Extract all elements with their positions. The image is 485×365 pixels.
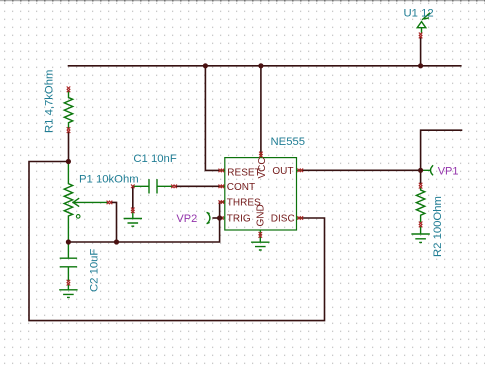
ground below R2: [412, 226, 429, 242]
wire reset feeder: [205, 66, 219, 171]
svg-text:NE555: NE555: [271, 136, 306, 148]
junction top rail / power: [418, 63, 423, 68]
junction OUT / VP1 / R2: [418, 168, 423, 173]
svg-text:C1 10nF: C1 10nF: [133, 153, 176, 165]
pin cross R2 top: [419, 183, 423, 189]
wire C1 to CONT: [176, 185, 220, 187]
svg-text:TRIG: TRIG: [227, 214, 251, 225]
resistor R2: [416, 187, 424, 222]
pin cross THRES: [219, 200, 225, 204]
resistor R1: [64, 91, 72, 128]
svg-text:P1 10kOhm: P1 10kOhm: [79, 173, 139, 185]
connector VP1 arc: [421, 166, 432, 175]
junction top rail / reset feeder: [203, 63, 208, 68]
wire vcc feeder: [260, 66, 262, 153]
pin stub RESET: [219, 169, 225, 171]
junction wiper / rail: [114, 239, 119, 244]
capacitor C2: [60, 242, 76, 280]
wire R1 bottom to junction: [68, 132, 70, 162]
pin cross TRIG: [220, 216, 223, 220]
capacitor C1: [134, 180, 173, 193]
power symbol U1 arrow: [417, 22, 426, 33]
potentiometer P1 wiper arrow: [73, 199, 108, 207]
pin cross C1 ground: [131, 208, 135, 214]
power pin slash over 12: [423, 13, 430, 19]
pin cross R2 bottom: [419, 222, 423, 228]
wire OUT to VP1 junction: [302, 169, 421, 171]
junction TRIG node: [217, 215, 222, 220]
junction top rail / vcc feeder: [258, 63, 263, 68]
connector VP2 arc: [207, 213, 210, 224]
pin stub TRIG: [220, 217, 225, 219]
pin stub OUT: [297, 169, 302, 171]
svg-text:U1 12: U1 12: [404, 8, 434, 20]
wire OUT branch up right: [421, 130, 462, 170]
pin cross DISC: [297, 216, 303, 220]
wire P1 wiper corner: [111, 202, 117, 242]
wire power stub U1: [420, 37, 422, 66]
pin cross R1 bottom: [67, 127, 71, 133]
wire feedback loop DISC: [29, 162, 325, 321]
pin cross GND: [259, 232, 263, 238]
pin cross U1 power: [419, 33, 423, 39]
pin cross P1 wiper: [107, 201, 113, 205]
svg-text:R1 4,7kOhm: R1 4,7kOhm: [43, 70, 55, 133]
wire VP2 stub: [213, 217, 219, 219]
ground below C1: [124, 211, 141, 226]
window top border: [0, 0, 485, 1]
svg-text:RESET: RESET: [227, 168, 260, 179]
pin stub GND: [259, 230, 261, 237]
pin cross CONT: [219, 185, 225, 189]
svg-text:GND: GND: [256, 204, 267, 226]
pin cross C2 bottom: [67, 280, 71, 286]
ground below C2: [60, 284, 77, 297]
wire top power rail: [69, 65, 461, 67]
pin stub VCC: [260, 153, 262, 158]
pin cross OUT: [297, 169, 303, 173]
wire C1 left down to ground: [132, 187, 134, 208]
wire bottom rail to TRIG: [68, 219, 219, 242]
pin cross VCC: [259, 152, 263, 158]
svg-text:VP1: VP1: [438, 165, 459, 177]
svg-text:R2 100Ohm: R2 100Ohm: [432, 196, 444, 257]
svg-text:VCC: VCC: [257, 157, 268, 178]
pin cross C1 right: [171, 185, 177, 189]
pin cross RESET: [219, 169, 225, 173]
junction R1 / P1 / loop: [66, 159, 71, 164]
pin cross C1 left: [131, 185, 135, 189]
wire THRES-TRIG link: [219, 202, 221, 218]
wire R2 stub: [420, 170, 422, 184]
pin stub DISC: [297, 217, 303, 219]
svg-text:C2 10uF: C2 10uF: [89, 249, 101, 292]
IC ground below GND pin: [252, 237, 269, 250]
svg-text:OUT: OUT: [272, 166, 293, 177]
pin stub CONT: [219, 185, 225, 187]
pin stub THRES: [220, 201, 225, 203]
junction P1 / C2 / rail: [66, 239, 71, 244]
pin cross R1 top: [67, 87, 71, 93]
svg-text:CONT: CONT: [227, 182, 255, 193]
potentiometer P1: [64, 163, 72, 243]
svg-text:VP2: VP2: [176, 213, 197, 225]
svg-text:DISC: DISC: [271, 214, 295, 225]
potentiometer P1 circle marker: [76, 215, 80, 219]
op-amp U1 NE555 body: [225, 158, 297, 230]
